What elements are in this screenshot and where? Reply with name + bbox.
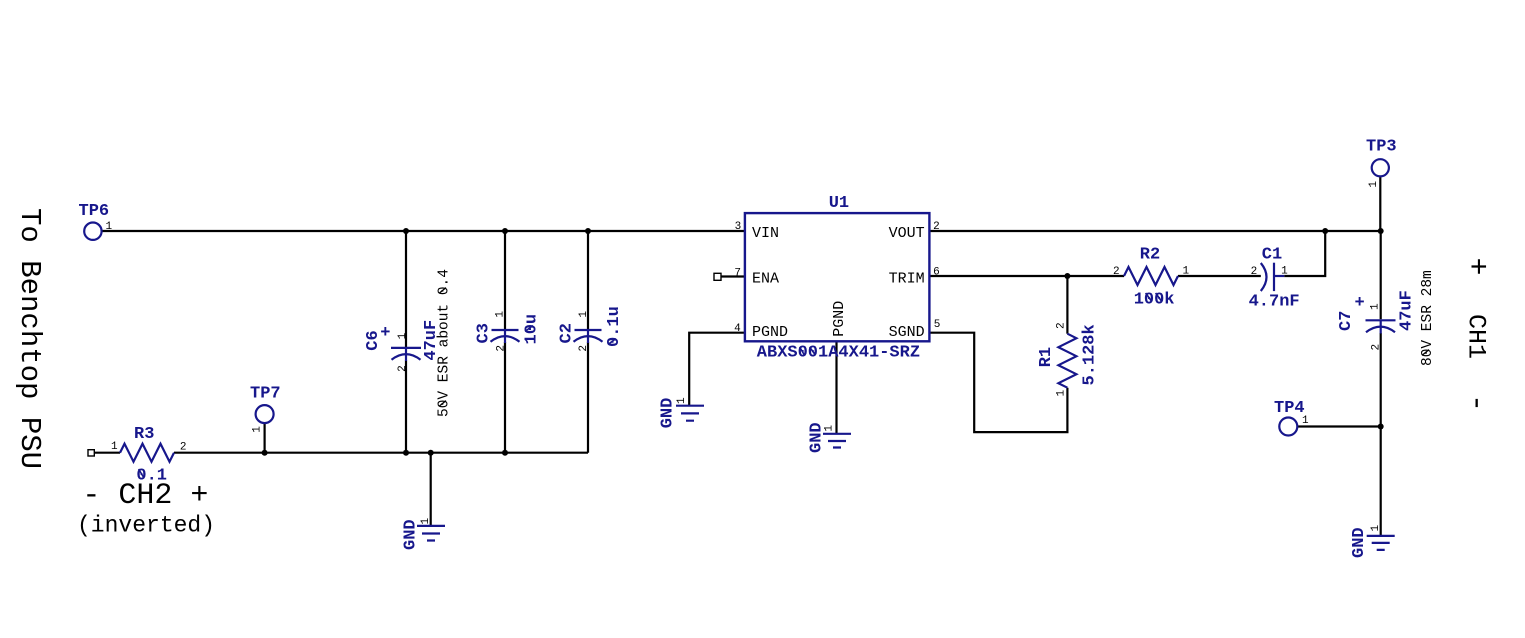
svg-text:2: 2: [1251, 266, 1258, 278]
wire C7 column bottom / to GND: [1380, 333, 1382, 536]
wire GND stub below bottom wire: [430, 453, 432, 526]
svg-text:4: 4: [734, 323, 741, 335]
svg-text:1: 1: [1370, 525, 1382, 532]
ground GND (below CH2 bottom wire): [401, 518, 445, 551]
wire U1 bottom PGND pin to GND: [835, 341, 837, 434]
svg-text:- CH2 +: - CH2 +: [82, 479, 208, 513]
wire C7 column top stub: [1380, 231, 1382, 319]
svg-text:1: 1: [578, 311, 590, 318]
svg-text:1: 1: [252, 426, 264, 433]
node junction R1/TRIM: [1064, 273, 1070, 279]
node junction C2/top: [585, 228, 591, 234]
svg-text:1: 1: [823, 425, 835, 432]
svg-text:GND: GND: [401, 519, 420, 550]
wire PGND left pin to GND: [689, 333, 745, 406]
capacitor C3: [474, 311, 541, 352]
testpoint TP4: [1274, 399, 1309, 436]
terminal square ENA: [714, 273, 721, 280]
node junction C6/bottom: [403, 450, 409, 456]
svg-text:5: 5: [934, 319, 941, 331]
svg-text:80V ESR 28m: 80V ESR 28m: [1420, 270, 1436, 366]
svg-text:1: 1: [1183, 265, 1190, 277]
testpoint TP7: [250, 385, 281, 433]
wire C1 to VOUT net: [1284, 231, 1325, 276]
svg-text:C7: C7: [1337, 311, 1356, 331]
node VIN net: top wire: [102, 230, 745, 232]
svg-text:C1: C1: [1262, 246, 1282, 265]
svg-text:To Benchtop PSU: To Benchtop PSU: [13, 208, 46, 469]
svg-text:50V ESR about 0.4: 50V ESR about 0.4: [437, 269, 453, 417]
svg-text:+: +: [1354, 294, 1364, 313]
svg-text:(inverted): (inverted): [77, 513, 215, 539]
svg-text:TP3: TP3: [1366, 137, 1397, 156]
svg-text:0.1u: 0.1u: [605, 306, 624, 347]
wire R2 to C1: [1178, 275, 1261, 277]
svg-text:TP7: TP7: [250, 385, 281, 404]
capacitor C2: [558, 306, 624, 351]
wire C6 column bottom stub: [405, 361, 407, 453]
resistor R2: [1113, 246, 1190, 310]
svg-text:7: 7: [734, 268, 741, 280]
wire C3 column top stub: [504, 231, 506, 329]
svg-text:1: 1: [1370, 303, 1382, 310]
node VOUT net: right top wire: [929, 230, 1380, 232]
wire C2 column top stub: [587, 231, 589, 329]
ground GND (U1 bottom PGND pin): [808, 422, 851, 453]
wire C2 column bottom stub: [587, 342, 589, 453]
svg-text:R2: R2: [1140, 246, 1160, 265]
svg-text:2: 2: [1113, 266, 1120, 278]
svg-text:CH1: CH1: [1462, 314, 1491, 359]
svg-text:+: +: [380, 324, 390, 343]
capacitor C6: [364, 320, 441, 372]
wire ENA stub: [721, 275, 745, 277]
svg-text:2: 2: [397, 365, 409, 372]
ground GND (left PGND pin): [659, 397, 704, 428]
resistor R1: [1037, 322, 1099, 396]
svg-text:3: 3: [735, 221, 742, 233]
svg-text:ENA: ENA: [752, 271, 779, 288]
testpoint TP3: [1366, 137, 1397, 187]
svg-text:4.7nF: 4.7nF: [1249, 292, 1300, 311]
node junction C3/bottom: [502, 450, 508, 456]
svg-text:1: 1: [397, 332, 409, 339]
svg-text:ABXS001A4X41-SRZ: ABXS001A4X41-SRZ: [757, 344, 920, 363]
wire C3 column bottom stub: [504, 342, 506, 453]
node junction TP7/bottom: [262, 450, 268, 456]
svg-text:5.128k: 5.128k: [1081, 324, 1100, 385]
svg-text:PGND: PGND: [752, 324, 788, 341]
node junction TP4/C7: [1378, 424, 1384, 430]
svg-text:-: -: [1459, 394, 1493, 412]
op-amp U1 (regulator box): [734, 194, 940, 363]
ground GND (right, below TP4 junction): [1350, 525, 1395, 559]
svg-text:2: 2: [1370, 344, 1382, 351]
testpoint TP6: [79, 202, 113, 240]
wire R1 top stub: [1066, 276, 1068, 334]
svg-text:TP6: TP6: [79, 202, 110, 221]
svg-text:1: 1: [111, 441, 118, 453]
svg-text:VOUT: VOUT: [889, 225, 925, 242]
svg-text:C2: C2: [558, 323, 577, 343]
svg-text:GND: GND: [659, 398, 678, 429]
svg-text:1: 1: [1281, 265, 1288, 277]
svg-text:1: 1: [1302, 415, 1309, 427]
node CH2 net: bottom wire: [174, 452, 588, 454]
svg-text:2: 2: [578, 345, 590, 352]
wire TP3 stub: [1379, 176, 1381, 231]
svg-text:C3: C3: [474, 323, 493, 343]
svg-text:+: +: [1459, 257, 1493, 275]
svg-text:TRIM: TRIM: [889, 271, 925, 288]
svg-text:2: 2: [495, 345, 507, 352]
node junction C6/top: [403, 228, 409, 234]
svg-text:VIN: VIN: [752, 225, 779, 242]
node junction C1/VOUT: [1322, 228, 1328, 234]
resistor R3: [111, 425, 187, 485]
svg-text:1: 1: [495, 311, 507, 318]
svg-text:6: 6: [933, 267, 940, 279]
svg-text:R3: R3: [134, 425, 154, 444]
svg-text:100k: 100k: [1134, 290, 1175, 309]
capacitor C1: [1249, 246, 1300, 312]
svg-text:2: 2: [1056, 322, 1068, 329]
label + CH1 -: [1459, 257, 1493, 412]
node junction TP3/VOUT: [1378, 228, 1384, 234]
node junction GND/bottom: [428, 450, 434, 456]
svg-text:1: 1: [676, 397, 688, 404]
svg-text:2: 2: [180, 442, 187, 454]
svg-text:TP4: TP4: [1274, 399, 1305, 418]
svg-text:1: 1: [1056, 390, 1068, 397]
wire R3 left stub: [94, 452, 120, 454]
svg-text:SGND: SGND: [889, 324, 925, 341]
svg-text:R1: R1: [1037, 347, 1056, 367]
wire C6 column top stub: [405, 231, 407, 347]
svg-text:U1: U1: [829, 194, 849, 213]
svg-text:47uF: 47uF: [1398, 290, 1417, 331]
capacitor C7: [1337, 290, 1417, 350]
wire TP4 stub: [1297, 425, 1380, 427]
svg-text:GND: GND: [1350, 527, 1369, 558]
svg-text:10u: 10u: [522, 314, 541, 345]
terminal square R3 left: [88, 450, 94, 456]
svg-text:PGND: PGND: [831, 301, 848, 337]
wire TP7 stub: [264, 423, 266, 453]
wire SGND route to R1 bottom: [929, 333, 1067, 432]
svg-text:1: 1: [106, 221, 113, 233]
svg-text:1: 1: [420, 518, 432, 525]
svg-text:2: 2: [933, 221, 940, 233]
wire TRIM net left segment: [929, 275, 1124, 277]
node junction C3/top: [502, 228, 508, 234]
svg-text:1: 1: [1368, 181, 1380, 188]
